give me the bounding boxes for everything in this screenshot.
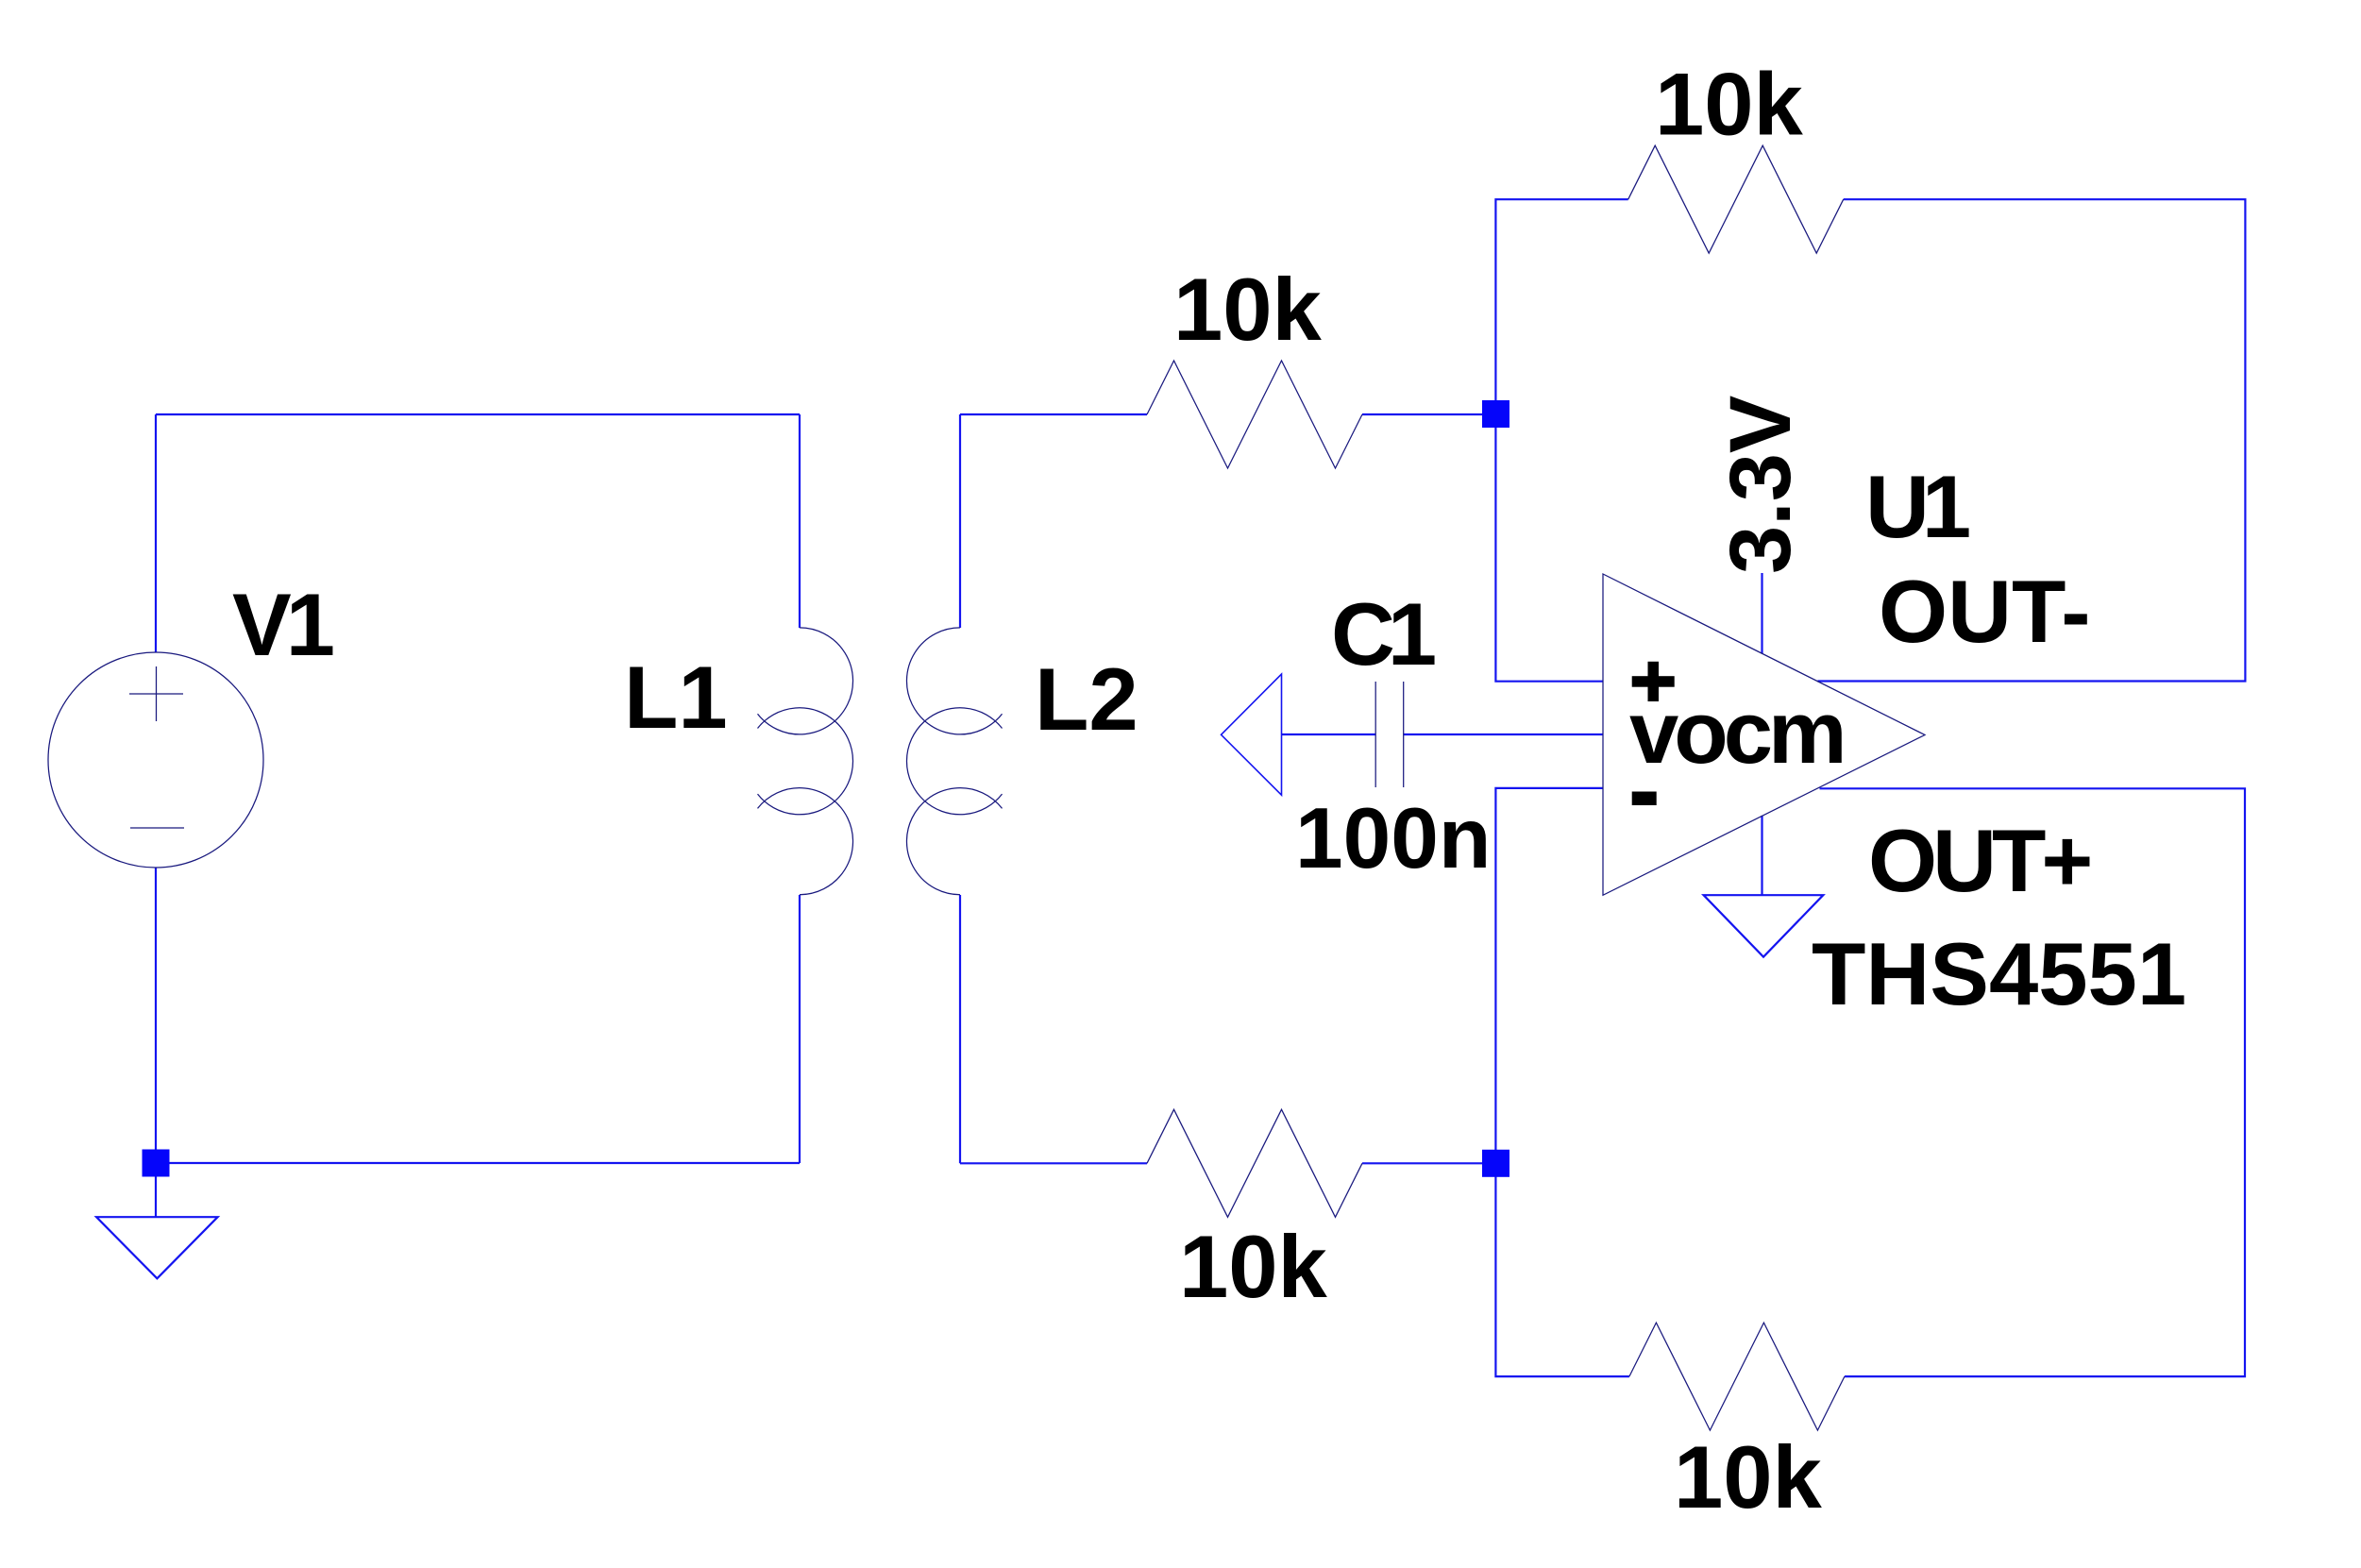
svg-text:vocm: vocm <box>1629 683 1843 782</box>
svg-text:V1: V1 <box>232 575 333 674</box>
svg-text:100n: 100n <box>1295 791 1491 886</box>
svg-text:10k: 10k <box>1173 260 1323 359</box>
svg-text:10k: 10k <box>1655 55 1804 154</box>
svg-text:THS4551: THS4551 <box>1812 924 2186 1023</box>
svg-text:U1: U1 <box>1865 457 1969 556</box>
svg-text:3.3V: 3.3V <box>1712 396 1809 574</box>
svg-text:10k: 10k <box>1179 1217 1328 1316</box>
svg-text:L2: L2 <box>1035 649 1138 749</box>
svg-text:OUT+: OUT+ <box>1868 811 2090 910</box>
svg-text:L1: L1 <box>624 648 728 747</box>
svg-text:10k: 10k <box>1674 1427 1823 1526</box>
svg-text:C1: C1 <box>1331 584 1435 683</box>
svg-text:OUT-: OUT- <box>1879 562 2091 661</box>
